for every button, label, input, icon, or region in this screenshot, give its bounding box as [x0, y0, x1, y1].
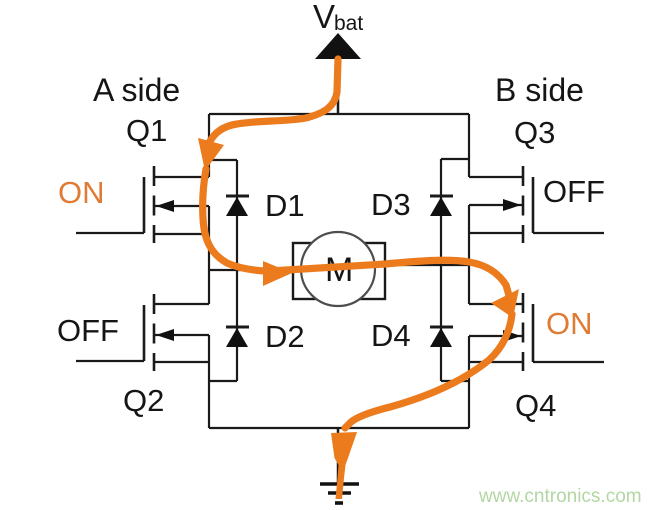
svg-text:Q1: Q1 — [126, 113, 167, 148]
diode D1 — [209, 160, 249, 270]
svg-text:D4: D4 — [371, 318, 411, 353]
diode D3 — [430, 159, 469, 265]
label D1 — [265, 188, 305, 223]
wire left bus Q2 source to bottom rail — [208, 335, 210, 428]
svg-text:Q2: Q2 — [123, 383, 164, 418]
label A side — [93, 72, 180, 108]
svg-text:ON: ON — [58, 175, 105, 210]
label ON (Q1, orange) — [58, 175, 105, 210]
label Q1 — [126, 113, 167, 148]
wire Vbat stem — [337, 59, 340, 115]
label ON (Q4, orange) — [546, 306, 593, 341]
wire left bus motor node to Q2 drain — [208, 270, 210, 304]
svg-text:OFF: OFF — [57, 313, 119, 348]
current path along Q1 to motor (orange) — [203, 169, 292, 286]
svg-text:Q4: Q4 — [515, 388, 556, 423]
diode D2 — [209, 270, 249, 381]
svg-text:OFF: OFF — [543, 174, 605, 209]
svg-text:D3: D3 — [371, 187, 411, 222]
svg-text:B side: B side — [495, 72, 584, 108]
current path through motor to Q4 (orange) — [270, 260, 519, 318]
wire ground stem — [337, 428, 340, 484]
motor M — [293, 232, 385, 306]
svg-text:V: V — [313, 0, 335, 35]
current path down Q4 and to ground (orange) — [331, 314, 512, 499]
wire right bus Q4 source to bottom rail — [468, 336, 470, 428]
wire motor right lead — [385, 264, 469, 266]
transistor Q3 — [469, 166, 604, 243]
svg-text:ON: ON — [546, 306, 593, 341]
wire right bus motor node to Q4 drain — [468, 265, 470, 304]
label D4 — [371, 318, 411, 353]
svg-text:www.cntronics.com: www.cntronics.com — [478, 486, 642, 507]
svg-text:bat: bat — [334, 12, 363, 35]
power Vbat symbol (filled triangle) — [315, 33, 361, 59]
label Q4 — [515, 388, 556, 423]
svg-text:Q3: Q3 — [514, 115, 555, 150]
transistor Q1 — [76, 166, 209, 243]
svg-text:D2: D2 — [265, 319, 305, 354]
transistor Q4 — [469, 293, 604, 371]
wire right bus upper (rail to Q3 drain) — [468, 114, 470, 177]
transistor Q2 — [76, 294, 209, 371]
wire motor left lead — [209, 269, 293, 271]
wire top rail — [209, 113, 469, 115]
wire left bus upper (rail to Q1 drain) — [208, 114, 210, 177]
wire left bus Q1 source to motor node — [208, 206, 210, 270]
label B side — [495, 72, 584, 108]
svg-text:D1: D1 — [265, 188, 305, 223]
label D2 — [265, 319, 305, 354]
label Q2 — [123, 383, 164, 418]
label OFF (Q2) — [57, 313, 119, 348]
label D3 — [371, 187, 411, 222]
label Q3 — [514, 115, 555, 150]
watermark www.cntronics.com — [478, 486, 642, 507]
svg-text:A side: A side — [93, 72, 180, 108]
wire right bus Q3 source to motor node — [468, 205, 470, 265]
ground — [320, 484, 359, 503]
diode D4 — [430, 265, 469, 381]
wire bottom rail — [209, 427, 469, 429]
label OFF (Q3) — [543, 174, 605, 209]
label Vbat — [313, 0, 363, 35]
current path from Vbat into Q1 (orange) — [198, 59, 338, 171]
